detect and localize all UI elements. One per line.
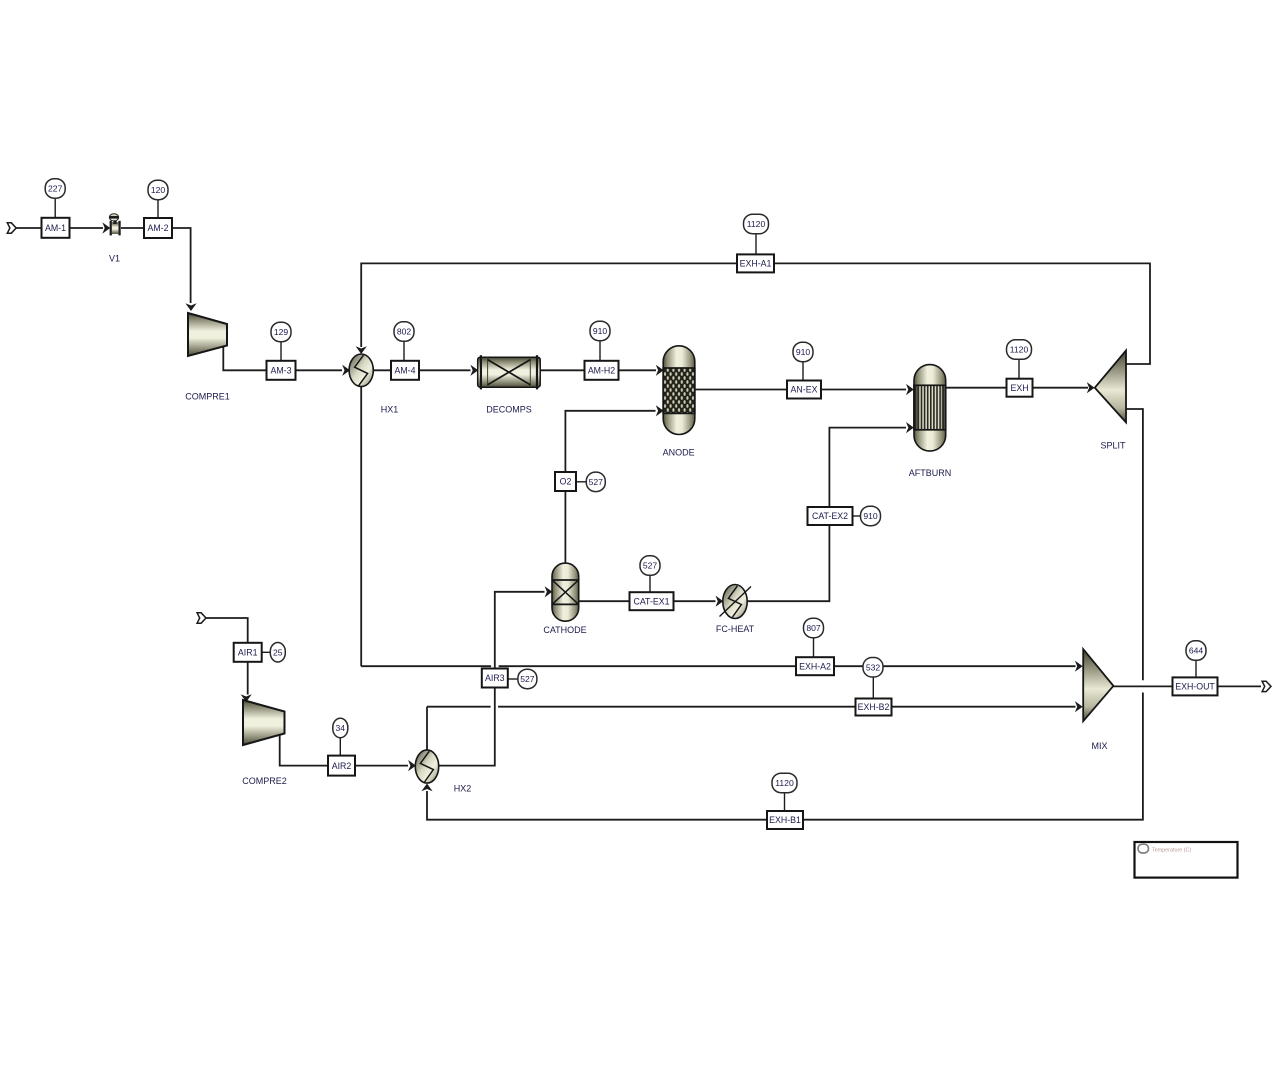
heater FC-HEAT bbox=[720, 585, 752, 619]
wire stream EXH-B1 to HX2 bbox=[427, 693, 1143, 820]
connector 34 to AIR2 bbox=[339, 738, 341, 756]
svg-text:ANODE: ANODE bbox=[663, 448, 695, 458]
arrowhead into AFTBURN lower bbox=[906, 422, 914, 433]
wire stream EXH-OUT MIX outlet bbox=[1113, 685, 1261, 687]
stream label EXH-OUT bbox=[1173, 677, 1218, 695]
wire stream CAT-EX1 CATHODE to FC-HEAT bbox=[579, 600, 716, 602]
svg-text:EXH: EXH bbox=[1010, 383, 1028, 393]
arrowhead into CATHODE bbox=[545, 586, 553, 597]
svg-text:910: 910 bbox=[863, 511, 878, 521]
arrowhead into COMPRE1 bbox=[185, 303, 196, 311]
connector 527 to CAT-EX1 bbox=[649, 575, 651, 592]
arrowhead into HX1 left bbox=[342, 365, 350, 376]
arrowhead into HX1 top bbox=[356, 346, 367, 354]
stream label EXH-A2 bbox=[796, 657, 834, 675]
heat exchanger HX1 bbox=[349, 354, 373, 387]
svg-text:1120: 1120 bbox=[747, 219, 766, 229]
temperature value 527 bbox=[640, 556, 660, 576]
connector 1120 to EXH-A1 bbox=[755, 234, 757, 255]
temperature value 910 bbox=[861, 506, 881, 526]
wire stream AM-4 from HX1 bbox=[373, 369, 391, 371]
wire stream CAT-EX2 FC-HEAT to AFTBURN bbox=[748, 428, 906, 602]
svg-text:227: 227 bbox=[48, 183, 63, 193]
svg-text:527: 527 bbox=[520, 674, 535, 684]
svg-text:EXH-OUT: EXH-OUT bbox=[1175, 682, 1215, 692]
svg-text:807: 807 bbox=[806, 623, 821, 633]
connector 1120 to EXH bbox=[1018, 359, 1020, 379]
svg-text:AFTBURN: AFTBURN bbox=[909, 468, 952, 478]
stream label O2 bbox=[555, 472, 576, 491]
wire stream AM-3 to HX1 bbox=[296, 369, 343, 371]
svg-text:1120: 1120 bbox=[775, 778, 794, 788]
svg-text:COMPRE2: COMPRE2 bbox=[242, 776, 287, 786]
svg-text:AM-2: AM-2 bbox=[147, 223, 168, 233]
compressor COMPRE2 bbox=[243, 700, 285, 745]
svg-text:CATHODE: CATHODE bbox=[543, 625, 586, 635]
svg-text:EXH-B1: EXH-B1 bbox=[769, 815, 801, 825]
temperature value 1120 bbox=[772, 773, 797, 793]
svg-text:COMPRE1: COMPRE1 bbox=[185, 392, 230, 402]
connector 527 to AIR3 bbox=[508, 678, 518, 680]
svg-text:SPLIT: SPLIT bbox=[1100, 441, 1126, 451]
svg-text:AIR2: AIR2 bbox=[332, 761, 352, 771]
arrowhead into ANODE lower bbox=[656, 405, 664, 416]
wire stream AM-4 to DECOMPS bbox=[419, 369, 471, 371]
stream label EXH-B1 bbox=[767, 811, 803, 829]
wire stream EXH-A2 from HX1 bbox=[360, 387, 362, 666]
wire stream AIR1 to COMPRE2 bbox=[247, 662, 249, 695]
temperature value 532 bbox=[863, 658, 883, 678]
svg-text:O2: O2 bbox=[560, 477, 572, 487]
svg-text:Temperature (C): Temperature (C) bbox=[1152, 848, 1191, 854]
temperature value 129 bbox=[271, 322, 291, 342]
svg-text:AM-1: AM-1 bbox=[45, 223, 66, 233]
wire stream EXH-B2 from HX2 bbox=[426, 707, 428, 750]
wire stream EXH-A2 left segment bbox=[361, 665, 491, 667]
svg-text:25: 25 bbox=[273, 647, 283, 657]
svg-text:AM-3: AM-3 bbox=[270, 366, 291, 376]
stream label AIR1 bbox=[234, 643, 262, 662]
connector 129 to AM-3 bbox=[280, 342, 282, 361]
product arrow stream EXH-OUT bbox=[1262, 681, 1271, 691]
svg-text:129: 129 bbox=[274, 327, 289, 337]
stream label AN-EX bbox=[787, 381, 821, 399]
temperature value 1120 bbox=[744, 214, 769, 234]
temperature value 34 bbox=[333, 718, 348, 738]
mixer MIX bbox=[1083, 649, 1113, 721]
wire stream AM-3 from COMPRE1 bbox=[223, 347, 266, 371]
svg-text:EXH-A2: EXH-A2 bbox=[799, 661, 831, 671]
temperature value 227 bbox=[45, 179, 65, 199]
svg-text:527: 527 bbox=[589, 477, 604, 487]
stream label EXH-A1 bbox=[737, 254, 774, 272]
wire stream EXH-A1 SPLIT to HX1 bbox=[361, 263, 1150, 364]
wire stream AM-2 to COMPRE1 bbox=[172, 228, 191, 303]
stream label CAT-EX1 bbox=[630, 592, 674, 610]
connector 807 to EXH-A2 bbox=[813, 638, 815, 657]
svg-text:AIR3: AIR3 bbox=[485, 673, 505, 683]
connector 227 to AM-1 bbox=[54, 199, 56, 218]
svg-text:EXH-B2: EXH-B2 bbox=[858, 702, 890, 712]
temperature value 802 bbox=[394, 322, 414, 342]
feed arrow stream AIR1 bbox=[197, 613, 206, 623]
svg-text:34: 34 bbox=[336, 723, 346, 733]
temperature value 1120 bbox=[1007, 340, 1032, 360]
valve V1 bbox=[109, 214, 120, 236]
wire stream AN-EX ANODE to AFTBURN bbox=[695, 389, 906, 391]
temperature value 25 bbox=[270, 643, 285, 663]
connector 25 to AIR1 bbox=[262, 651, 271, 653]
svg-text:AM-4: AM-4 bbox=[394, 366, 415, 376]
svg-text:AM-H2: AM-H2 bbox=[588, 366, 615, 376]
connector 910 to AN-EX bbox=[802, 362, 804, 381]
wire stream EXH-B2 to MIX bbox=[498, 706, 1075, 708]
temperature value 910 bbox=[590, 321, 610, 341]
stream label AIR2 bbox=[328, 756, 355, 776]
svg-text:FC-HEAT: FC-HEAT bbox=[716, 624, 755, 634]
legend box bbox=[1135, 842, 1238, 878]
arrowhead into COMPRE2 bbox=[241, 694, 252, 702]
wire stream O2 CATHODE to ANODE bbox=[565, 411, 655, 564]
heat exchanger HX2 bbox=[415, 750, 438, 783]
connector 644 to EXH-OUT bbox=[1195, 660, 1197, 677]
temperature value 527 bbox=[518, 669, 537, 689]
svg-text:HX1: HX1 bbox=[381, 405, 399, 415]
svg-text:AIR1: AIR1 bbox=[238, 648, 258, 658]
arrowhead into MIX upper bbox=[1075, 661, 1083, 672]
svg-text:DECOMPS: DECOMPS bbox=[486, 405, 532, 415]
wire stream AM-H2 to ANODE bbox=[619, 369, 657, 371]
wire stream EXH AFTBURN to SPLIT bbox=[946, 387, 1088, 389]
stream label EXH-B2 bbox=[856, 699, 892, 716]
wire stream EXH-A2 to MIX bbox=[499, 665, 1076, 667]
compressor COMPRE1 bbox=[188, 313, 227, 356]
vessel CATHODE bbox=[552, 563, 579, 621]
stream label AM-1 bbox=[42, 218, 70, 238]
reactor DECOMPS bbox=[478, 355, 541, 389]
svg-text:MIX: MIX bbox=[1091, 741, 1107, 751]
stream label AM-2 bbox=[144, 218, 172, 238]
arrowhead into FC-HEAT bbox=[716, 596, 724, 607]
stream label CAT-EX2 bbox=[808, 507, 853, 525]
wire stream AM-1 inlet bbox=[16, 227, 41, 229]
connector 910 to AM-H2 bbox=[599, 341, 601, 361]
svg-text:644: 644 bbox=[1189, 646, 1204, 656]
svg-text:527: 527 bbox=[643, 561, 658, 571]
wire stream AIR1 inlet bbox=[206, 618, 248, 643]
svg-text:1120: 1120 bbox=[1010, 345, 1029, 355]
arrowhead into valve V1 bbox=[102, 222, 110, 233]
arrowhead into DECOMPS bbox=[470, 365, 478, 376]
connector 910 to CAT-EX2 bbox=[853, 515, 862, 517]
temperature value 910 bbox=[793, 342, 813, 362]
svg-text:910: 910 bbox=[593, 326, 608, 336]
svg-text:910: 910 bbox=[796, 347, 811, 357]
svg-text:EXH-A1: EXH-A1 bbox=[740, 259, 772, 269]
svg-text:532: 532 bbox=[866, 662, 881, 672]
stream label AIR3 bbox=[482, 669, 508, 688]
svg-text:CAT-EX2: CAT-EX2 bbox=[812, 511, 848, 521]
wire stream AIR3 HX2 to CATHODE bbox=[438, 592, 544, 766]
temperature value 644 bbox=[1186, 641, 1206, 661]
wire stream AM-1 to valve V1 bbox=[70, 227, 104, 229]
svg-text:V1: V1 bbox=[109, 254, 120, 264]
stream label AM-H2 bbox=[585, 361, 619, 380]
wire stream AIR2 from COMPRE2 bbox=[280, 735, 328, 766]
wire stream AM-2 from valve bbox=[121, 227, 144, 229]
arrowhead into HX2 left bbox=[408, 760, 416, 771]
feed arrow stream AM-1 bbox=[7, 223, 16, 233]
stream label EXH bbox=[1007, 379, 1033, 397]
arrowhead into SPLIT bbox=[1087, 382, 1095, 393]
vessel AFTBURN bbox=[914, 365, 946, 452]
svg-text:802: 802 bbox=[397, 327, 412, 337]
wire stream AM-H2 from DECOMPS bbox=[540, 369, 584, 371]
connector 802 to AM-4 bbox=[403, 341, 405, 361]
connector 532 to EXH-B2 bbox=[872, 677, 874, 699]
svg-text:120: 120 bbox=[151, 185, 166, 195]
splitter SPLIT bbox=[1095, 351, 1126, 423]
temperature value 527 bbox=[586, 472, 605, 492]
temperature value 120 bbox=[148, 180, 168, 200]
connector 1120 to EXH-B1 bbox=[784, 793, 786, 812]
wire stream EXH-B2 left segment bbox=[427, 706, 491, 708]
arrowhead into MIX lower bbox=[1075, 701, 1083, 712]
arrowhead into AFTBURN upper bbox=[906, 384, 914, 395]
svg-text:AN-EX: AN-EX bbox=[791, 385, 818, 395]
stream label AM-3 bbox=[267, 361, 296, 380]
wire stream AIR2 to HX2 bbox=[355, 765, 408, 767]
vessel ANODE bbox=[663, 346, 695, 435]
wire stream EXH-B1 from SPLIT bbox=[1126, 409, 1143, 680]
connector 120 to AM-2 bbox=[157, 200, 159, 219]
svg-text:HX2: HX2 bbox=[454, 784, 472, 794]
svg-text:CAT-EX1: CAT-EX1 bbox=[633, 596, 669, 606]
arrowhead into HX2 bottom bbox=[421, 784, 432, 792]
stream label AM-4 bbox=[391, 361, 419, 380]
temperature value 807 bbox=[804, 618, 824, 638]
arrowhead into ANODE upper bbox=[656, 365, 664, 376]
connector 527 to O2 bbox=[576, 481, 587, 483]
